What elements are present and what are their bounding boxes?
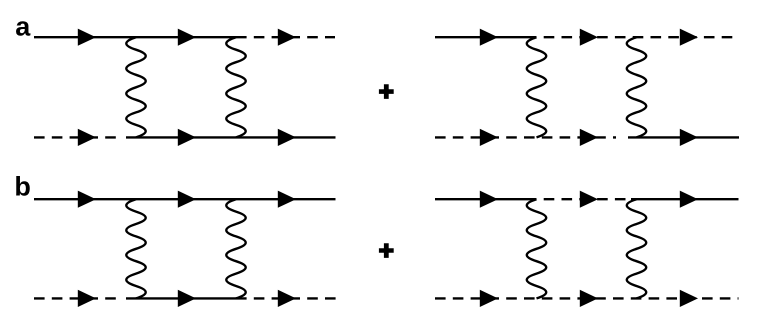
- row a right: bottom line solid segment: [628, 136, 739, 138]
- row b right: arrow bottom 3: [680, 290, 698, 307]
- row b right: arrow top 3: [680, 191, 698, 208]
- row b left: arrow bottom 3: [278, 290, 296, 307]
- row b left: arrow top 1: [78, 191, 96, 208]
- row a right: arrow bottom 3: [680, 129, 698, 146]
- row b left: arrow bottom 2: [178, 290, 196, 307]
- row b right: arrow bottom 2: [580, 290, 598, 307]
- row a right: arrow bottom 2: [580, 129, 598, 146]
- row b right: top line solid segment 1: [435, 198, 537, 200]
- row a left: bottom line dashed segment (in-going): [34, 136, 119, 138]
- row b left: arrow bottom 1: [78, 290, 96, 307]
- row b left: photon propagator wave 2: [226, 199, 245, 298]
- row a left: arrow bottom 3: [278, 129, 296, 146]
- row b right: photon propagator wave 2: [627, 199, 646, 298]
- plus sign row b: [379, 243, 394, 258]
- row a left: arrow bottom 2: [178, 129, 196, 146]
- row b left: bottom line solid middle segment: [126, 297, 236, 299]
- row a right: photon propagator wave 2: [627, 37, 646, 137]
- row b right: top line dashed middle segment: [537, 198, 629, 200]
- row a left: arrow top 3: [278, 29, 296, 46]
- row a right: arrow top 3: [680, 29, 698, 46]
- row a left: photon propagator wave 1: [126, 37, 145, 137]
- row a left: top line dashed segment (outgoing, after vertex 2): [236, 36, 335, 38]
- row a right: arrow top 1: [480, 29, 498, 46]
- row a right: bottom line dashed segment: [435, 136, 616, 138]
- row b left: bottom line dashed segment 2: [236, 297, 336, 299]
- row b right: arrow top 2: [580, 191, 598, 208]
- row a left: arrow bottom 1: [78, 129, 96, 146]
- row a left: bottom line solid segment: [126, 136, 336, 138]
- row b left: arrow top 2: [178, 191, 196, 208]
- row b left: top fermion line fully solid: [34, 198, 336, 200]
- svg-text:b: b: [14, 172, 31, 202]
- row b right: arrow bottom 1: [480, 290, 498, 307]
- row b right: top line solid segment 2: [631, 198, 739, 200]
- row b right: photon propagator wave 1: [527, 199, 546, 298]
- row a right: top line solid segment: [435, 36, 537, 38]
- row a left: arrow top 1: [78, 29, 96, 46]
- row a left: arrow top 2: [178, 29, 196, 46]
- row a right: arrow top 2: [580, 29, 598, 46]
- row b left: photon propagator wave 1: [126, 199, 145, 298]
- row a right: arrow bottom 1: [480, 129, 498, 146]
- row a left: photon propagator wave 2: [226, 37, 245, 137]
- row a right: photon propagator wave 1: [527, 37, 546, 137]
- svg-text:a: a: [15, 12, 31, 42]
- row b right: arrow top 1: [480, 191, 498, 208]
- plus sign row a: [379, 84, 394, 99]
- row b left: arrow top 3: [278, 191, 296, 208]
- row a right: top line dashed segment: [537, 36, 739, 38]
- row b right: bottom line fully dashed: [435, 297, 739, 299]
- row b left: bottom line dashed segment 1: [34, 297, 119, 299]
- row a left: top fermion line solid segment (in-going electron): [34, 36, 236, 38]
